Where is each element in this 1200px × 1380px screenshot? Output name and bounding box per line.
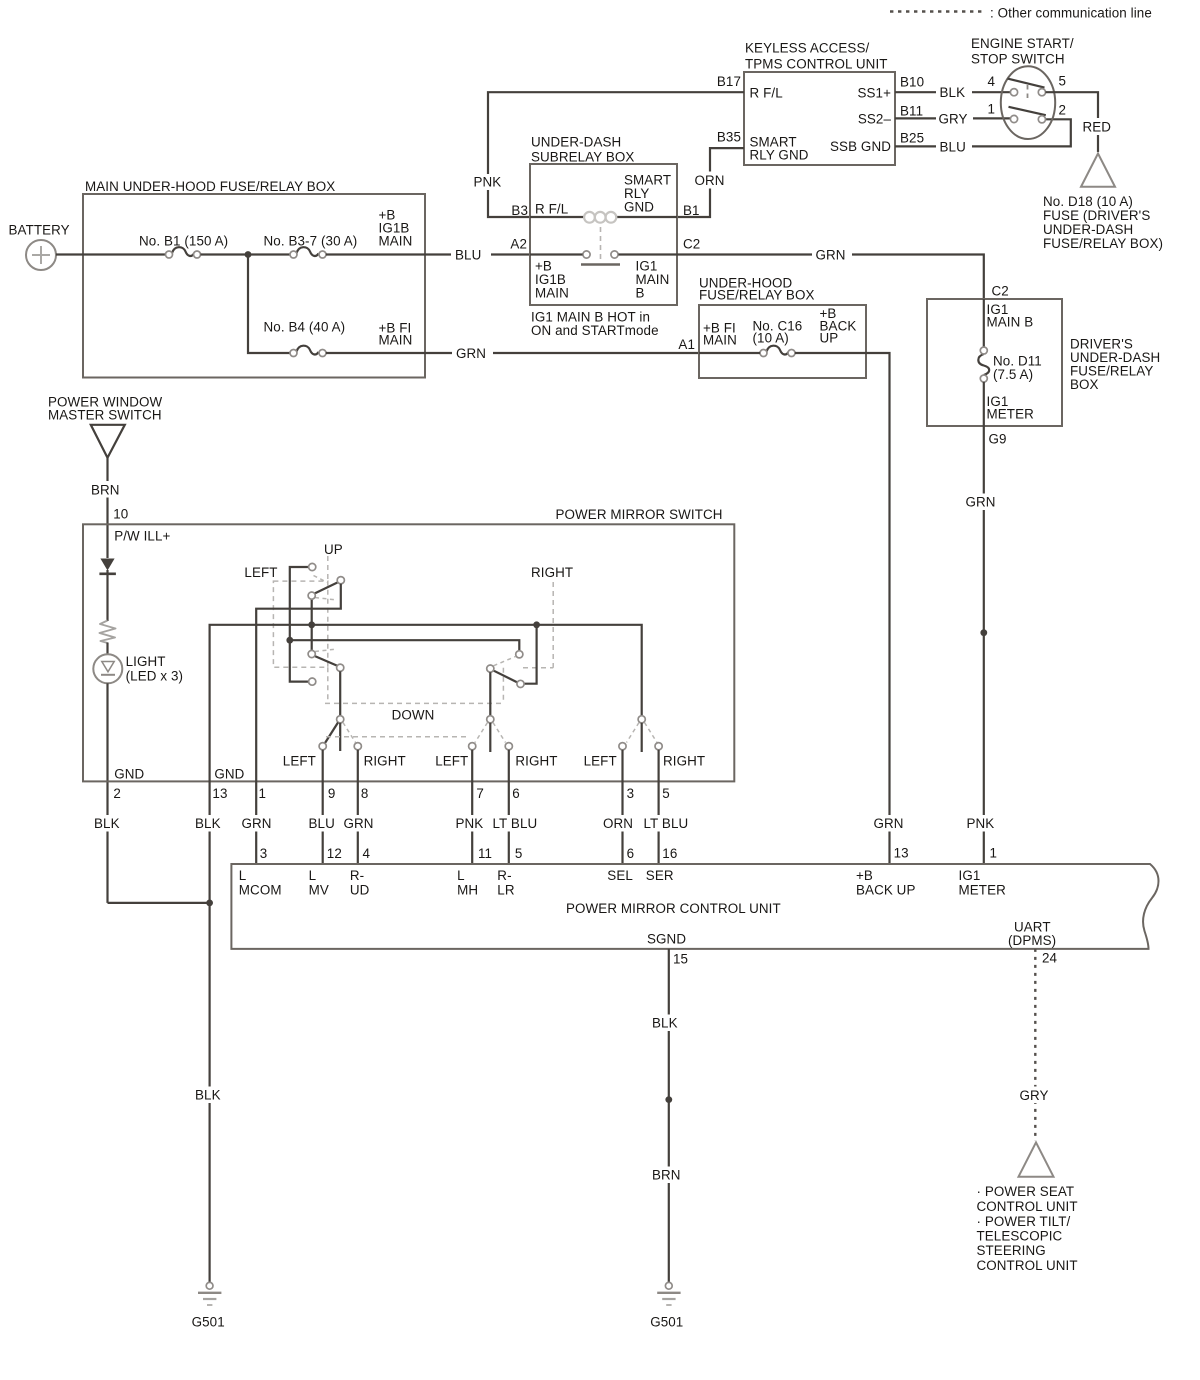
bus2 wire: [290, 640, 520, 651]
ground G501 left: [192, 1282, 225, 1329]
power mirror switch box: [83, 507, 734, 781]
terminal 2: [1038, 116, 1045, 123]
svg-text:ENGINE START/: ENGINE START/: [971, 36, 1074, 51]
svg-text:BLU: BLU: [940, 139, 966, 154]
svg-text:4: 4: [987, 74, 995, 89]
svg-text:GRN: GRN: [816, 248, 846, 263]
svg-text:4: 4: [363, 846, 371, 861]
svg-text:BRN: BRN: [91, 482, 120, 497]
svg-text:6: 6: [512, 786, 520, 801]
selector A common contact: [337, 716, 344, 723]
svg-text:3: 3: [627, 786, 635, 801]
svg-text:LEFT: LEFT: [283, 754, 316, 769]
wire selector C RIGHT to pin 16 (LT BLU): [640, 750, 694, 864]
svg-text:GRN: GRN: [874, 816, 904, 831]
svg-text:No. D18 (10 A): No. D18 (10 A): [1043, 194, 1133, 209]
svg-text:GRN: GRN: [242, 816, 272, 831]
svg-text:SEL: SEL: [607, 868, 633, 883]
svg-text:BRN: BRN: [652, 1168, 681, 1183]
svg-text:L: L: [457, 868, 465, 883]
label B1: [683, 203, 700, 218]
svg-text:MAIN B: MAIN B: [987, 314, 1034, 329]
junction node bus1 right switch: [533, 621, 540, 628]
svg-text:GRY: GRY: [1020, 1088, 1049, 1103]
svg-text:BLK: BLK: [652, 1016, 678, 1031]
svg-text:MAIN: MAIN: [703, 333, 737, 348]
label G9: [989, 431, 1007, 446]
pin 10 label: [113, 506, 128, 521]
pin 15 label: [673, 952, 688, 967]
label P/W ILL+: [114, 528, 170, 543]
svg-text:FUSE (DRIVER'S: FUSE (DRIVER'S: [1043, 208, 1150, 223]
right switch tip contact: [517, 680, 524, 687]
legend: other communication line: [890, 6, 1152, 21]
svg-text:No. B4 (40 A): No. B4 (40 A): [264, 320, 346, 335]
wire SSB GND B25 (BLU): [895, 119, 1071, 154]
svg-text:LEFT: LEFT: [244, 565, 277, 580]
left switch top contact: [309, 563, 316, 570]
pin number 2: [1059, 103, 1067, 118]
wire coil to LED: [106, 643, 108, 655]
wire diode to resistor coil: [106, 570, 108, 621]
svg-text:UNDER-DASH: UNDER-DASH: [1043, 222, 1133, 237]
destination caption: [977, 1184, 1078, 1273]
svg-text:STOP SWITCH: STOP SWITCH: [971, 52, 1065, 67]
left switch lower blade: [314, 656, 340, 667]
svg-text:C2: C2: [992, 284, 1009, 299]
svg-text:13: 13: [894, 846, 909, 861]
svg-text:: Other communication line: : Other communication line: [990, 6, 1152, 21]
wire fuse B4 to under-hood box A1 (GRN): [326, 345, 699, 362]
label UP: [324, 542, 343, 557]
bus1 wire GND: [210, 625, 642, 903]
driver's under-dash fuse/relay box: [927, 299, 1062, 426]
svg-text:(7.5 A): (7.5 A): [993, 367, 1033, 382]
svg-text:TPMS CONTROL UNIT: TPMS CONTROL UNIT: [745, 57, 888, 72]
left switch rail wire: [290, 567, 309, 682]
terminal 4: [1010, 89, 1017, 96]
svg-text:No. B1 (150 A): No. B1 (150 A): [139, 234, 228, 249]
svg-text:BLU: BLU: [455, 248, 481, 263]
wire pin5 to fuse D18 (RED): [1046, 92, 1118, 152]
driver's box label: [1070, 337, 1160, 393]
pin B17 label: [717, 74, 741, 89]
resistor coil (LED dropper): [100, 621, 116, 644]
wire battery to fuse B1: [56, 253, 166, 255]
svg-text:5: 5: [662, 786, 670, 801]
svg-text:RLY GND: RLY GND: [750, 148, 809, 163]
left switch upper blade dashed alternate: [314, 576, 338, 601]
svg-text:1: 1: [259, 786, 267, 801]
relay coil: [584, 212, 616, 223]
selector A dashed alternate: [343, 723, 356, 743]
UART communication dashed wire (GRY): [1016, 949, 1056, 1141]
svg-text:(LED x 3): (LED x 3): [126, 669, 183, 684]
wire IG1 MAIN B to fuse D11: [983, 299, 985, 348]
svg-text:MAIN UNDER-HOOD FUSE/RELAY BOX: MAIN UNDER-HOOD FUSE/RELAY BOX: [85, 179, 335, 194]
svg-text:GRN: GRN: [456, 346, 486, 361]
wire right pivot to selector B: [489, 672, 491, 716]
svg-text:POWER MIRROR CONTROL UNIT: POWER MIRROR CONTROL UNIT: [566, 901, 781, 916]
wire fuse B3-7 to subrelay box A2 (BLU): [326, 247, 530, 264]
selector B pole stub: [489, 723, 491, 752]
wire +B BACK UP down to control unit (GRN): [866, 353, 910, 864]
pin B11 label: [900, 104, 923, 119]
svg-text:DOWN: DOWN: [392, 708, 435, 723]
svg-text:GND: GND: [214, 766, 244, 781]
wire SS2- B11 (GRY): [895, 110, 1010, 127]
svg-text:ORN: ORN: [695, 173, 725, 188]
svg-text:RIGHT: RIGHT: [364, 754, 406, 769]
svg-text:KEYLESS ACCESS/: KEYLESS ACCESS/: [745, 41, 869, 56]
svg-text:BLK: BLK: [94, 816, 120, 831]
svg-text:L: L: [309, 868, 317, 883]
svg-text:FUSE/RELAY BOX: FUSE/RELAY BOX: [699, 288, 815, 303]
svg-text:MAIN: MAIN: [379, 234, 413, 249]
svg-text:B17: B17: [717, 74, 741, 89]
svg-text:METER: METER: [987, 406, 1035, 421]
svg-text:G9: G9: [989, 431, 1007, 446]
svg-text:B10: B10: [900, 75, 924, 90]
wire G9 to control unit IG1 METER (GRN/PNK): [962, 426, 1003, 864]
junction node on IG1 METER wire: [980, 629, 987, 636]
left switch lower blade dashed alternate: [315, 649, 337, 652]
svg-text:SUBRELAY BOX: SUBRELAY BOX: [531, 150, 634, 165]
label RIGHT (right mirror switch): [531, 565, 573, 580]
svg-text:IG1: IG1: [959, 868, 981, 883]
svg-text:(DPMS): (DPMS): [1008, 933, 1056, 948]
wire pin2 BLK to junction: [108, 902, 210, 904]
svg-text:R F/L: R F/L: [750, 85, 783, 100]
svg-text:· POWER TILT/: · POWER TILT/: [977, 1214, 1071, 1229]
wire SS1+ B10 (BLK): [895, 84, 1010, 101]
left switch upper tip contact: [337, 577, 344, 584]
fuse No. B3-7 (30 A): [264, 234, 358, 259]
svg-text:ON and STARTmode: ON and STARTmode: [531, 323, 659, 338]
control unit pin numbers: [260, 846, 678, 861]
right switch pole from bus1: [524, 625, 537, 684]
svg-text:9: 9: [328, 786, 336, 801]
relay link dashes: [600, 227, 602, 262]
svg-text:5: 5: [1059, 74, 1067, 89]
svg-text:CONTROL UNIT: CONTROL UNIT: [977, 1199, 1078, 1214]
svg-text:SER: SER: [646, 868, 674, 883]
terminal 5: [1038, 89, 1045, 96]
svg-text:RIGHT: RIGHT: [531, 565, 573, 580]
label +B FI MAIN: [379, 321, 413, 348]
selector C LEFT contact: [619, 743, 626, 750]
selector B RIGHT contact: [505, 743, 512, 750]
svg-text:BOX: BOX: [1070, 377, 1099, 392]
svg-text:SSB GND: SSB GND: [830, 139, 891, 154]
right switch dashed linkage: [523, 582, 553, 668]
svg-text:LEFT: LEFT: [435, 754, 468, 769]
svg-text:+B: +B: [856, 868, 873, 883]
junction node pole-bus1: [308, 621, 315, 628]
svg-text:G501: G501: [192, 1315, 225, 1330]
svg-text:SS1+: SS1+: [857, 85, 891, 100]
LED light symbol (LED x 3): [93, 654, 183, 684]
junction node SGND wire: [665, 1096, 672, 1103]
left switch upper blade: [314, 582, 340, 595]
svg-text:LIGHT: LIGHT: [126, 654, 166, 669]
svg-text:LR: LR: [497, 883, 515, 898]
svg-text:MH: MH: [457, 883, 478, 898]
left switch pole wire: [311, 598, 313, 651]
selector A blade to LEFT: [325, 723, 338, 744]
selector C RIGHT contact: [655, 743, 662, 750]
svg-text:RIGHT: RIGHT: [663, 754, 705, 769]
pin number 5: [1059, 74, 1067, 89]
junction node rail-bus2: [286, 637, 293, 644]
selector B common contact: [487, 716, 494, 723]
left switch lower pivot contact: [308, 650, 315, 657]
svg-text:10: 10: [113, 506, 128, 521]
svg-text:BLK: BLK: [940, 85, 966, 100]
right switch pivot contact: [487, 665, 494, 672]
svg-text:LT BLU: LT BLU: [644, 816, 689, 831]
svg-text:12: 12: [327, 846, 342, 861]
battery: [9, 223, 70, 271]
svg-text:C2: C2: [683, 237, 700, 252]
svg-text:(10 A): (10 A): [753, 331, 789, 346]
relay contact C2 side: [611, 251, 618, 258]
labels GND GND inside switch box: [114, 766, 244, 781]
switch pin numbers: [113, 786, 669, 801]
svg-text:POWER MIRROR SWITCH: POWER MIRROR SWITCH: [556, 507, 723, 522]
svg-text:R F/L: R F/L: [535, 201, 568, 216]
under-hood fuse/relay box: [699, 276, 866, 379]
svg-text:6: 6: [627, 846, 635, 861]
power window master switch: [48, 395, 163, 458]
relay coil wire inside box: [530, 216, 677, 218]
relay contact bar: [581, 263, 620, 265]
svg-text:ORN: ORN: [603, 816, 633, 831]
svg-text:MASTER SWITCH: MASTER SWITCH: [48, 408, 162, 423]
wire relay contact to C2: [619, 253, 678, 255]
label C2: [683, 237, 700, 252]
wire C2 to driver's box (GRN): [677, 247, 984, 300]
diode D1: [99, 559, 116, 574]
pin 24 label: [1042, 951, 1058, 966]
svg-text:GND: GND: [624, 200, 654, 215]
svg-text:7: 7: [476, 786, 484, 801]
wire fuse C16 inside box: [699, 352, 866, 354]
selector A pole stub: [339, 723, 341, 751]
ground G501 right: [650, 1282, 683, 1329]
fuse No. B4 (40 A): [264, 320, 346, 357]
svg-text:A1: A1: [678, 337, 695, 352]
selector C dashed alternates: [627, 723, 658, 743]
wire B35 smart rly gnd (ORN): [677, 148, 744, 217]
wire selector A RIGHT to pin 4 (GRN): [340, 750, 381, 864]
svg-text:UP: UP: [820, 331, 839, 346]
wire pin2 BLK label: [91, 815, 128, 832]
label +B IG1B MAIN: [379, 208, 413, 249]
wire LED to GND pin 2: [106, 683, 108, 903]
svg-text:16: 16: [662, 846, 677, 861]
svg-text:· POWER SEAT: · POWER SEAT: [977, 1184, 1075, 1199]
engine start/stop switch S1: [971, 36, 1074, 139]
svg-text:GRN: GRN: [966, 495, 996, 510]
junction node BLK: [206, 900, 213, 907]
svg-text:MV: MV: [309, 883, 329, 898]
svg-text:24: 24: [1042, 951, 1058, 966]
svg-text:15: 15: [673, 952, 688, 967]
selector B LEFT contact: [469, 743, 476, 750]
svg-text:B3: B3: [511, 203, 528, 218]
wire pin1 GRN label: [238, 815, 278, 832]
svg-text:8: 8: [361, 786, 369, 801]
fuse No. B1 (150 A): [139, 234, 228, 259]
svg-text:A2: A2: [510, 237, 527, 252]
wire B17 R F/L (PNK): [470, 92, 744, 217]
pin 1 control unit: [990, 846, 998, 861]
svg-text:TELESCOPIC: TELESCOPIC: [977, 1229, 1063, 1244]
subrelay caption: [531, 310, 659, 339]
svg-text:STEERING: STEERING: [977, 1243, 1046, 1258]
destination triangle: [1019, 1142, 1054, 1176]
svg-text:R-: R-: [350, 868, 364, 883]
svg-text:BLU: BLU: [309, 816, 335, 831]
svg-text:LEFT: LEFT: [584, 754, 617, 769]
svg-text:GRY: GRY: [939, 111, 968, 126]
selector A RIGHT contact: [354, 743, 361, 750]
wire master switch to diode (BRN): [89, 458, 126, 558]
label LEFT (left mirror switch): [244, 565, 277, 580]
junction node: [245, 251, 252, 258]
selector B dashed alternates: [475, 723, 506, 743]
pin number 1: [987, 102, 995, 117]
svg-text:UP: UP: [324, 542, 343, 557]
svg-text:BACK UP: BACK UP: [856, 883, 916, 898]
left switch bottom contact: [309, 678, 316, 685]
selector C pole stub: [641, 723, 643, 752]
selector A LEFT contact: [319, 743, 326, 750]
left switch upper pivot contact: [308, 592, 315, 599]
right switch blade: [493, 670, 518, 682]
svg-text:1: 1: [990, 846, 998, 861]
svg-text:MAIN: MAIN: [379, 333, 413, 348]
main under-hood fuse/relay box: [83, 179, 425, 378]
label DOWN: [392, 708, 435, 723]
svg-text:PNK: PNK: [967, 816, 995, 831]
label B3: [511, 203, 528, 218]
pin 13 control unit: [894, 846, 909, 861]
label C2 driver's box: [992, 284, 1009, 299]
selector mechanical link dashes: [326, 736, 470, 738]
svg-text:11: 11: [478, 846, 492, 861]
svg-text:BLK: BLK: [195, 1088, 221, 1103]
wire junction to fuse B4: [248, 255, 290, 354]
svg-text:SGND: SGND: [647, 932, 686, 947]
pin B25 label: [900, 131, 924, 146]
wire selector B RIGHT to pin 5 (LT BLU): [489, 750, 543, 864]
svg-text:1: 1: [987, 102, 995, 117]
svg-text:B1: B1: [683, 203, 700, 218]
pin B10 label: [900, 75, 924, 90]
svg-text:BLK: BLK: [195, 816, 221, 831]
svg-text:3: 3: [260, 846, 268, 861]
svg-text:PNK: PNK: [456, 816, 484, 831]
power mirror control unit box: [231, 864, 1161, 949]
right switch upper contact: [516, 651, 523, 658]
switch mechanical link dashes: [1027, 85, 1029, 100]
left switch dashed enclosure: [273, 556, 327, 667]
keyless access / TPMS control unit U1: [744, 41, 895, 166]
svg-text:13: 13: [212, 786, 227, 801]
wire A2 to relay contact: [530, 253, 583, 255]
svg-text:BATTERY: BATTERY: [9, 223, 70, 238]
svg-text:B: B: [636, 286, 645, 301]
wire BLK to ground G501 left: [192, 903, 229, 1283]
svg-text:B25: B25: [900, 131, 924, 146]
wire fuse B1 to junction: [201, 253, 291, 255]
svg-text:GND: GND: [114, 766, 144, 781]
svg-text:PNK: PNK: [474, 175, 502, 190]
svg-text:L: L: [239, 868, 247, 883]
fuse D18 caption: [1043, 194, 1163, 251]
pin B35 label: [717, 130, 741, 145]
wire selector C LEFT to pin 6 (ORN): [600, 750, 640, 864]
terminal 1: [1010, 115, 1017, 122]
svg-text:GRN: GRN: [344, 816, 374, 831]
switch blade 1-2: [1009, 107, 1046, 115]
label A1: [678, 337, 695, 352]
selector C common contact: [638, 716, 645, 723]
left switch lower tip contact: [337, 664, 344, 671]
wire pin13 BLK label: [192, 815, 229, 832]
DOWN dashed linkage: [325, 667, 503, 703]
svg-text:LT BLU: LT BLU: [493, 816, 538, 831]
wire selector A LEFT to pin 12 (BLU): [305, 750, 341, 864]
svg-text:SS2–: SS2–: [858, 111, 892, 126]
fuse No. D11 (7.5 A): [978, 347, 989, 382]
svg-text:No. B3-7 (30 A): No. B3-7 (30 A): [264, 234, 358, 249]
svg-text:UD: UD: [350, 883, 370, 898]
relay contact A2 side: [583, 251, 590, 258]
svg-text:MAIN: MAIN: [535, 286, 569, 301]
svg-text:2: 2: [113, 786, 121, 801]
fuse No. C16 (10 A): [760, 346, 795, 357]
label A2: [510, 237, 527, 252]
wire selector B LEFT to pin 11 (PNK): [452, 750, 490, 864]
svg-text:B11: B11: [900, 104, 923, 119]
svg-text:METER: METER: [959, 883, 1007, 898]
svg-text:G501: G501: [650, 1315, 683, 1330]
svg-text:MCOM: MCOM: [239, 883, 282, 898]
svg-text:RIGHT: RIGHT: [515, 754, 557, 769]
svg-text:UNDER-DASH: UNDER-DASH: [531, 135, 621, 150]
svg-text:P/W ILL+: P/W ILL+: [114, 528, 170, 543]
selector position labels: [283, 754, 705, 769]
svg-text:5: 5: [515, 846, 523, 861]
wire fuse D11 to G9: [983, 382, 985, 426]
fuse No. D18 triangle symbol: [1081, 154, 1115, 187]
wire SGND to ground G501 (BLK/BRN): [649, 949, 687, 1283]
svg-text:2: 2: [1059, 103, 1067, 118]
switch blade 4-5: [1008, 79, 1045, 88]
svg-text:R-: R-: [497, 868, 511, 883]
svg-text:CONTROL UNIT: CONTROL UNIT: [977, 1258, 1078, 1273]
svg-text:RED: RED: [1083, 120, 1112, 135]
svg-text:B35: B35: [717, 130, 741, 145]
pin number 4: [987, 74, 995, 89]
wire upper tip to pin1 rail (GRN out): [256, 584, 341, 864]
wire lower tip to selector A: [339, 671, 341, 716]
right switch blade dashed alternate: [494, 657, 516, 666]
under-dash subrelay box: [530, 135, 677, 306]
